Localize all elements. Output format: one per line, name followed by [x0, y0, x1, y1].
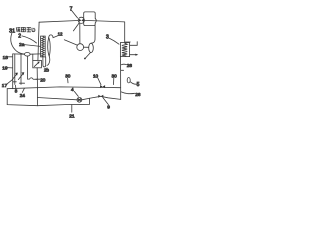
flow box — [33, 60, 42, 67]
unit box 8 24 — [7, 89, 37, 106]
pipe tank left — [12, 54, 14, 89]
svg-text:24: 24 — [20, 93, 26, 98]
compressor U1 — [84, 12, 96, 26]
pipe valve1 — [14, 54, 16, 84]
accumulator — [89, 43, 94, 52]
water outlet stub — [130, 42, 138, 46]
wire jog — [125, 41, 131, 43]
svg-text:21: 21 — [69, 113, 75, 119]
fan 4 — [77, 97, 82, 102]
label 26 upper — [121, 63, 126, 66]
four-way valve 7 — [78, 17, 84, 23]
svg-text:30: 30 — [112, 73, 118, 78]
wire hop — [95, 18, 96, 23]
wire L1 — [37, 96, 120, 100]
svg-text:26: 26 — [127, 63, 133, 68]
expansion valve V1 — [12, 75, 16, 80]
sight glass 5 — [127, 78, 130, 83]
heat exchanger 3 — [120, 43, 129, 57]
svg-text:20: 20 — [40, 77, 46, 82]
evaporator coil 2 — [41, 36, 46, 57]
valve 9 — [98, 95, 103, 98]
wire top edge — [39, 21, 78, 23]
connector motor-accumulator — [84, 46, 89, 48]
svg-text:2a: 2a — [19, 42, 25, 47]
svg-text:26: 26 — [135, 92, 141, 97]
expansion valve 10 — [100, 85, 105, 88]
pipe pump to coil — [30, 53, 40, 55]
stub tick — [121, 69, 124, 71]
svg-text:17: 17 — [2, 83, 8, 89]
node left corner — [38, 22, 39, 60]
svg-text:31: 31 — [9, 29, 15, 35]
wire diagonal to motor — [64, 40, 77, 45]
connector hump — [28, 78, 38, 80]
water inlet stub arrow — [130, 54, 136, 56]
wire valve diagonal — [73, 23, 79, 31]
leader 31 arc — [11, 33, 25, 54]
label 21 — [71, 105, 73, 113]
discharge pipe — [91, 26, 95, 44]
U-trap 2b — [43, 57, 46, 67]
wire L2 riser — [37, 98, 89, 105]
pipe below box — [36, 68, 38, 89]
svg-text:30: 30 — [65, 74, 71, 79]
svg-text:4: 4 — [71, 87, 74, 93]
svg-text:3: 3 — [106, 34, 109, 40]
expansion valve V2 — [18, 74, 22, 79]
pump 31 — [25, 53, 31, 57]
motor circle — [77, 44, 84, 51]
svg-text:9: 9 — [107, 105, 110, 111]
pipe to flow box — [32, 54, 34, 60]
kanji text — [16, 27, 35, 32]
sensing bulb loop — [48, 37, 51, 56]
svg-text:19: 19 — [2, 66, 8, 72]
label 26 lower — [121, 92, 134, 94]
svg-text:18: 18 — [3, 55, 9, 61]
svg-text:2b: 2b — [44, 67, 49, 72]
wire down right — [124, 22, 126, 42]
wire L3 — [7, 87, 121, 89]
suction pipe — [79, 23, 81, 44]
pipe to pump — [13, 53, 25, 55]
svg-text:5: 5 — [137, 82, 140, 88]
wire right edge — [120, 57, 122, 100]
svg-text:12: 12 — [58, 32, 63, 37]
svg-text:2: 2 — [18, 33, 21, 39]
wire to right — [85, 20, 125, 22]
pipe valve2 — [20, 54, 22, 84]
pipe right drop — [27, 56, 29, 79]
drain pipe — [85, 53, 90, 59]
